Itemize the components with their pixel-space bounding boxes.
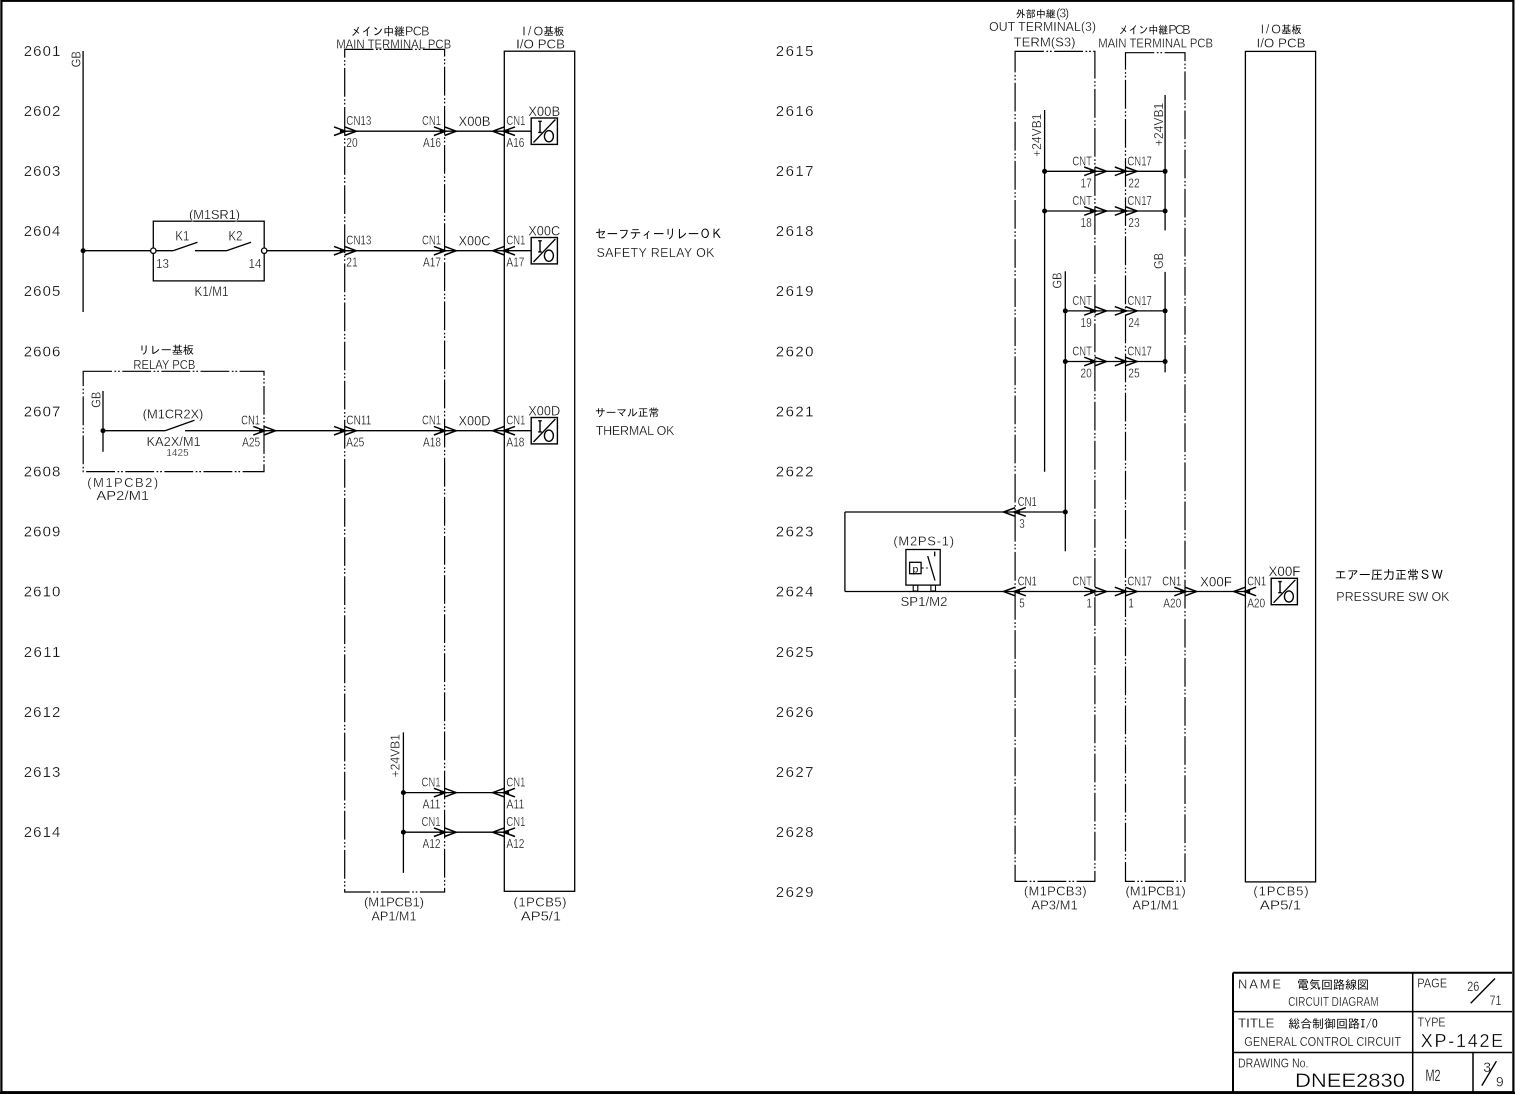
connector CN1 A25 relay board edge: [241, 414, 276, 450]
svg-text:CN1: CN1: [1247, 575, 1266, 589]
svg-text:X00F: X00F: [1200, 575, 1232, 590]
svg-text:X00C: X00C: [459, 234, 491, 249]
connector CN13 20 main-in: [334, 114, 371, 150]
svg-text:X00D: X00D: [459, 414, 491, 429]
connector CN1 5 term-in: [1004, 575, 1037, 611]
svg-text:GB: GB: [70, 51, 84, 67]
annotation pressure sw ok: [1336, 569, 1450, 604]
svg-text:CN1: CN1: [506, 234, 525, 248]
junction right-bus-24: [1163, 308, 1168, 313]
svg-text:X00F: X00F: [1269, 564, 1301, 579]
svg-text:CN1: CN1: [506, 776, 525, 790]
annotation thermal ok: [596, 407, 675, 437]
net GB term label: [1051, 273, 1065, 289]
svg-text:AP3/M1: AP3/M1: [1031, 897, 1077, 912]
relay contacts box (M1SR1) K1/M1: [153, 207, 264, 299]
svg-text:71: 71: [1490, 992, 1502, 1008]
svg-text:I/O: I/O: [1261, 23, 1282, 37]
svg-text:19: 19: [1080, 316, 1092, 330]
title block page cell: [1417, 976, 1501, 1008]
title block: [1233, 973, 1512, 1092]
wire +24VB1 right vertical: [1164, 95, 1166, 230]
svg-text:MAIN TERMINAL PCB: MAIN TERMINAL PCB: [1098, 36, 1213, 50]
svg-text:17: 17: [1080, 176, 1092, 190]
svg-text:(3): (3): [1056, 7, 1069, 21]
wire 2604 inside main box: [345, 250, 445, 252]
title block name cell: [1238, 977, 1379, 1010]
svg-text:A20: A20: [1247, 597, 1265, 611]
svg-text:24: 24: [1128, 316, 1140, 330]
svg-text:TERM(S3): TERM(S3): [1014, 35, 1076, 49]
svg-text:CN1: CN1: [1018, 495, 1037, 509]
svg-text:2602: 2602: [24, 103, 61, 120]
svg-text:NAME: NAME: [1238, 977, 1281, 992]
svg-text:1: 1: [1128, 597, 1134, 611]
svg-text:2624: 2624: [776, 584, 814, 601]
junction right-bus-23: [1163, 209, 1168, 214]
wire 2607 contact to main terminal box: [185, 430, 445, 432]
svg-text:2629: 2629: [776, 884, 814, 901]
svg-text:I/O: I/O: [522, 24, 543, 38]
junction GB-CN1-3: [1063, 510, 1068, 515]
svg-text:CN1: CN1: [422, 776, 441, 790]
svg-text:TYPE: TYPE: [1418, 1014, 1446, 1029]
wire row X00B: [345, 130, 445, 132]
svg-text:2603: 2603: [24, 163, 61, 180]
svg-text:CN1: CN1: [422, 815, 441, 829]
wire row CN1 A11: [403, 792, 504, 794]
svg-text:2627: 2627: [776, 764, 814, 781]
junction bus-19: [1063, 308, 1068, 313]
svg-text:2622: 2622: [776, 464, 814, 481]
svg-text:CNT: CNT: [1072, 345, 1092, 359]
svg-text:TITLE: TITLE: [1238, 1015, 1275, 1030]
io-module X00C: [528, 223, 560, 264]
svg-text:A12: A12: [423, 837, 441, 851]
svg-text:+24VB1: +24VB1: [1030, 113, 1044, 157]
svg-text:CNT: CNT: [1072, 154, 1092, 168]
wire row CNT 20 to CN17 25: [1065, 361, 1165, 363]
wire 2604 K2 to main terminal box: [267, 250, 445, 252]
svg-text:CN11: CN11: [346, 414, 371, 428]
svg-text:26: 26: [1467, 978, 1479, 994]
svg-text:2606: 2606: [24, 343, 61, 360]
svg-text:I/O PCB: I/O PCB: [1257, 36, 1306, 50]
title block sheet cell: [1482, 1059, 1504, 1090]
svg-text:CN1: CN1: [422, 114, 441, 128]
connector CN1 A17 main-out: [422, 234, 456, 270]
svg-text:+24VB1: +24VB1: [1152, 103, 1166, 147]
pressure switch SP1/M2 (M2PS-1): [893, 534, 954, 610]
svg-text:A16: A16: [506, 136, 524, 150]
svg-text:GB: GB: [1051, 273, 1065, 289]
junction right-bus-22: [1163, 169, 1168, 174]
svg-text:CN17: CN17: [1127, 575, 1152, 589]
junction +24VB1-A12: [401, 830, 406, 835]
svg-text:PRESSURE SW OK: PRESSURE SW OK: [1336, 590, 1450, 604]
svg-text:CN1: CN1: [1162, 575, 1181, 589]
annotation safety relay ok: [596, 229, 721, 261]
title block m2 cell: [1426, 1066, 1441, 1085]
junction +24VB1-A11: [401, 790, 406, 795]
svg-text:PCB: PCB: [1168, 23, 1190, 37]
svg-text:RELAY PCB: RELAY PCB: [133, 358, 195, 372]
connector CNT 17 term-out: [1072, 154, 1106, 190]
connector CN13 21 main-in: [334, 234, 371, 270]
svg-text:2607: 2607: [24, 403, 61, 420]
board RELAY PCB (M1PCB2) AP2/M1: [83, 345, 264, 503]
connector CNT 19 term-out: [1072, 294, 1106, 330]
svg-text:13: 13: [156, 257, 169, 271]
wire GB left bus vertical: [82, 51, 84, 312]
svg-text:2619: 2619: [776, 283, 814, 300]
connector CN17 22 main-in: [1115, 154, 1152, 190]
io-module X00B: [528, 104, 560, 145]
connector CN1 A17 io-in: [493, 234, 526, 270]
svg-text:CN13: CN13: [346, 114, 371, 128]
svg-text:2626: 2626: [776, 704, 814, 721]
wire row X00D: [445, 430, 532, 432]
io-module X00F: [1269, 564, 1301, 605]
svg-text:GB: GB: [1152, 253, 1166, 269]
svg-text:(M1PCB1): (M1PCB1): [1126, 883, 1186, 898]
svg-text:2605: 2605: [24, 283, 61, 300]
svg-text:9: 9: [1496, 1074, 1504, 1090]
net +24VB1 left label: [389, 734, 403, 778]
svg-text:20: 20: [346, 136, 358, 150]
wire GB relay vertical: [102, 391, 104, 452]
svg-text:2623: 2623: [776, 524, 814, 541]
board MAIN TERMINAL PCB left: [336, 25, 451, 924]
svg-text:CN17: CN17: [1127, 194, 1152, 208]
svg-text:2617: 2617: [776, 163, 814, 180]
svg-text:K1: K1: [175, 229, 189, 244]
svg-text:A17: A17: [506, 256, 524, 270]
svg-text:2616: 2616: [776, 103, 814, 120]
svg-text:PAGE: PAGE: [1417, 976, 1447, 991]
svg-text:SAFETY RELAY OK: SAFETY RELAY OK: [597, 246, 716, 260]
svg-text:(M2PS-1): (M2PS-1): [893, 534, 954, 549]
connector CNT 1 term-out: [1072, 575, 1106, 611]
svg-text:2601: 2601: [24, 43, 61, 60]
svg-text:CN1: CN1: [241, 414, 260, 428]
net +24VB1 right label: [1152, 103, 1166, 147]
svg-text:AP5/1: AP5/1: [1260, 897, 1302, 912]
junction bus-20: [1063, 359, 1068, 364]
wire row CNT 18 to CN17 23: [1045, 210, 1166, 212]
svg-text:A25: A25: [242, 436, 260, 450]
svg-text:A18: A18: [506, 436, 524, 450]
svg-text:1: 1: [1086, 597, 1092, 611]
wire GB term vertical: [1064, 271, 1066, 551]
relay contact KA2X/M1 (M1CR2X) 1425: [103, 406, 203, 459]
svg-text:AP2/M1: AP2/M1: [96, 488, 149, 503]
wire +24VB1 left vertical: [402, 732, 404, 873]
io-module X00D: [528, 403, 560, 444]
connector CN1 A11 io-in: [493, 776, 526, 812]
svg-text:X00B: X00B: [528, 104, 560, 119]
svg-text:2610: 2610: [24, 584, 61, 601]
wire CN1 3 row: [845, 511, 1065, 513]
svg-text:p: p: [912, 563, 918, 575]
svg-text:X00D: X00D: [528, 403, 560, 418]
svg-text:CIRCUIT DIAGRAM: CIRCUIT DIAGRAM: [1288, 995, 1379, 1009]
wire +24VB1 term vertical: [1044, 110, 1046, 472]
svg-text:K1/M1: K1/M1: [195, 284, 229, 299]
svg-text:2604: 2604: [24, 223, 61, 240]
svg-text:+24VB1: +24VB1: [389, 734, 403, 778]
svg-text:GB: GB: [89, 392, 103, 408]
connector CN1 3 term-in: [1004, 495, 1037, 531]
board I/O PCB left: [504, 24, 574, 923]
svg-text:18: 18: [1080, 216, 1092, 230]
connector CN1 A12 io-in: [493, 815, 526, 851]
svg-text:CNT: CNT: [1072, 294, 1092, 308]
svg-text:CN13: CN13: [346, 234, 371, 248]
svg-text:(M1PCB1): (M1PCB1): [364, 895, 424, 910]
contact K2: [195, 229, 267, 271]
svg-text:22: 22: [1128, 176, 1140, 190]
net GB right label: [1152, 253, 1166, 269]
svg-text:25: 25: [1128, 367, 1140, 381]
svg-text:5: 5: [1019, 597, 1025, 611]
title block type cell: [1418, 1014, 1504, 1050]
junction GB-2604: [81, 248, 86, 253]
svg-text:2615: 2615: [776, 43, 814, 60]
svg-text:CN1: CN1: [506, 815, 525, 829]
connector CNT 20 term-out: [1072, 345, 1106, 381]
connector CN17 1 main-in: [1115, 575, 1152, 611]
svg-text:23: 23: [1128, 216, 1140, 230]
svg-text:A16: A16: [423, 136, 441, 150]
wire CN1 5 row: [845, 591, 1246, 593]
svg-text:CN1: CN1: [506, 414, 525, 428]
svg-text:CN17: CN17: [1127, 345, 1152, 359]
svg-text:AP1/M1: AP1/M1: [372, 908, 417, 923]
wire GB right vertical: [1164, 272, 1166, 373]
connector CN1 A16 io-in: [493, 114, 526, 150]
svg-text:A25: A25: [346, 436, 364, 450]
svg-text:2614: 2614: [24, 824, 61, 841]
svg-text:K2: K2: [229, 229, 243, 244]
junction right-bus-25: [1163, 359, 1168, 364]
wire row CN1 A12: [403, 831, 504, 833]
contact K1: [151, 229, 198, 271]
connector CN1 A20 main-out: [1162, 575, 1196, 611]
svg-text:X00B: X00B: [459, 114, 491, 129]
svg-text:A18: A18: [423, 436, 441, 450]
svg-text:X00C: X00C: [528, 223, 560, 238]
svg-text:CNT: CNT: [1072, 575, 1092, 589]
connector CN1 A20 io-in: [1234, 575, 1266, 611]
svg-text:2621: 2621: [776, 403, 814, 420]
svg-text:CN17: CN17: [1127, 154, 1152, 168]
connector CN1 A16 main-out: [422, 114, 456, 150]
title block title cell: [1238, 1015, 1401, 1049]
wire pressure-switch bracket vertical: [844, 512, 846, 592]
connector CN17 24 main-in: [1115, 294, 1152, 330]
svg-text:THERMAL OK: THERMAL OK: [596, 424, 675, 438]
svg-text:2625: 2625: [776, 644, 814, 661]
svg-text:21: 21: [346, 256, 358, 270]
connector CN1 A18 io-in: [493, 414, 526, 450]
svg-text:AP1/M1: AP1/M1: [1132, 897, 1178, 912]
svg-text:(M1SR1): (M1SR1): [189, 207, 240, 222]
svg-text:2608: 2608: [24, 464, 61, 481]
wire row CNT 17 to CN17 22: [1045, 170, 1166, 172]
net GB relay label: [89, 392, 103, 408]
svg-text:CN1: CN1: [422, 414, 441, 428]
svg-text:KA2X/M1: KA2X/M1: [147, 434, 201, 449]
svg-text:A17: A17: [423, 256, 441, 270]
svg-text:(1PCB5): (1PCB5): [514, 895, 567, 910]
svg-text:I/O PCB: I/O PCB: [516, 38, 565, 52]
title block drawing-no cell: [1238, 1055, 1405, 1092]
svg-text:CN1: CN1: [506, 114, 525, 128]
junction bus-17: [1042, 169, 1047, 174]
svg-text:(1PCB5): (1PCB5): [1253, 883, 1308, 898]
svg-text:2628: 2628: [776, 824, 814, 841]
svg-text:AP5/1: AP5/1: [521, 908, 561, 923]
svg-text:2609: 2609: [24, 524, 61, 541]
connector CN17 23 main-in: [1115, 194, 1152, 230]
svg-text:GENERAL CONTROL CIRCUIT: GENERAL CONTROL CIRCUIT: [1244, 1035, 1401, 1049]
svg-text:1425: 1425: [166, 448, 189, 459]
svg-text:20: 20: [1080, 367, 1092, 381]
svg-text:PCB: PCB: [405, 25, 430, 39]
svg-text:DRAWING No.: DRAWING No.: [1238, 1055, 1309, 1070]
net +24VB1 term label: [1030, 113, 1044, 157]
connector CN17 25 main-in: [1115, 345, 1152, 381]
connector CN1 A12 main-out: [422, 815, 457, 851]
wire 2604 GB to K1: [83, 250, 151, 252]
svg-text:CN1: CN1: [422, 234, 441, 248]
svg-text:A11: A11: [506, 798, 524, 812]
svg-text:(M1CR2X): (M1CR2X): [143, 406, 204, 421]
svg-text:2620: 2620: [776, 343, 814, 360]
svg-text:14: 14: [249, 257, 262, 271]
connector CNT 18 term-out: [1072, 194, 1106, 230]
svg-text:CNT: CNT: [1072, 194, 1092, 208]
wire row X00C: [445, 250, 532, 252]
board MAIN TERMINAL PCB right: [1098, 23, 1213, 913]
svg-text:(M1PCB3): (M1PCB3): [1024, 883, 1087, 898]
connector CN1 A11 main-out: [422, 776, 457, 812]
svg-text:DNEE2830: DNEE2830: [1295, 1071, 1405, 1092]
svg-text:M2: M2: [1426, 1066, 1441, 1085]
svg-text:2612: 2612: [24, 704, 61, 721]
svg-text:A12: A12: [506, 837, 524, 851]
svg-text:CN17: CN17: [1127, 294, 1152, 308]
svg-text:CN1: CN1: [1018, 575, 1037, 589]
svg-text:2613: 2613: [24, 764, 61, 781]
svg-text:3: 3: [1019, 517, 1025, 531]
connector CN1 A18 main-out: [422, 414, 456, 450]
svg-text:A11: A11: [423, 798, 441, 812]
junction GB-2607: [101, 428, 106, 433]
svg-text:SP1/M2: SP1/M2: [901, 594, 948, 609]
svg-text:2618: 2618: [776, 223, 814, 240]
wire row CNT 19 to CN17 24: [1065, 310, 1165, 312]
board I/O PCB right: [1245, 23, 1315, 913]
junction bus-18: [1042, 209, 1047, 214]
net GB left bus label: [70, 51, 84, 67]
svg-text:OUT TERMINAL(3): OUT TERMINAL(3): [989, 20, 1096, 34]
connector CN11 A25 main-in: [334, 414, 371, 450]
board OUT TERMINAL(3) TERM(S3): [989, 7, 1096, 913]
svg-text:A20: A20: [1163, 597, 1181, 611]
